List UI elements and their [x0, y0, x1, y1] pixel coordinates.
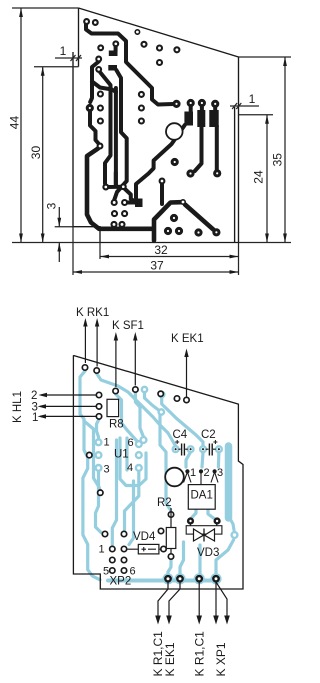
resistor R2 — [170, 508, 172, 554]
svg-text:2: 2 — [204, 467, 210, 479]
wire blue DA1 to VD3 pad2 — [208, 510, 216, 520]
wire dim 24 line — [266, 115, 268, 243]
wire trace pad l to pad n — [185, 205, 214, 230]
wire blue branch to iso pad — [84, 421, 100, 491]
svg-text:K HL1: K HL1 — [12, 391, 24, 423]
wire stub pad Z — [160, 184, 164, 204]
wire foil boundary right — [234, 107, 236, 243]
svg-text:35: 35 — [271, 153, 285, 167]
svg-text:5: 5 — [103, 566, 109, 578]
svg-text:K XP1: K XP1 — [214, 642, 228, 676]
wire arrow HL1-3 — [40, 405, 96, 407]
pad C — [135, 30, 139, 34]
pad free1 — [158, 391, 163, 396]
pad i — [171, 215, 176, 220]
wire dim 30 line — [42, 67, 44, 243]
wire blue band to VD3 pad — [229, 516, 235, 530]
pad K EK1 — [184, 397, 189, 402]
pad R — [174, 101, 179, 106]
wire arrow bottom2 — [169, 582, 180, 618]
wire blue trace pad to via — [145, 393, 159, 411]
pad VD3 lead2 — [215, 519, 220, 524]
pad XP2-f — [121, 557, 126, 562]
pad f — [122, 211, 127, 216]
wire square2 — [108, 65, 117, 71]
wire arrow HL1-1 — [40, 415, 96, 417]
wire extension 24 — [239, 114, 273, 116]
wire trace from pad A to pad R — [86, 24, 173, 105]
pad C4 left — [173, 446, 179, 452]
wire arrow HL1-2 — [41, 394, 96, 396]
pad K SF1 b — [133, 387, 138, 392]
pad M — [98, 106, 103, 111]
svg-text:3: 3 — [104, 464, 110, 476]
svg-text:1: 1 — [104, 437, 110, 449]
pad R2 bottom — [168, 554, 173, 559]
wire dim 32 line — [100, 256, 239, 258]
svg-text:VD3: VD3 — [197, 547, 219, 559]
wire blue wide right — [225, 446, 233, 518]
pad h — [120, 222, 125, 227]
pad C2 left — [200, 446, 206, 452]
resistor R8 — [107, 399, 119, 416]
pad m — [196, 230, 201, 235]
wire stub pad U — [213, 107, 217, 111]
svg-text:37: 37 — [150, 259, 164, 273]
wire trace bar3 to pad Y — [215, 126, 219, 170]
pad XP2-d — [121, 546, 126, 551]
pad HL1-1 — [96, 414, 101, 419]
diode VD3 — [190, 524, 216, 526]
wire rect2 junction — [135, 199, 143, 208]
svg-text:XP2: XP2 — [110, 576, 132, 588]
pad HL1-3 — [96, 404, 101, 409]
pad U1 pin5 — [136, 452, 142, 458]
wire arrow K SF1 a — [115, 336, 117, 387]
wire trace circle skirt to rect2 — [136, 125, 185, 198]
wire blue trace R8 right to U1 pin6 — [116, 394, 139, 443]
pad XP2-b — [121, 531, 126, 536]
pad bottom halo2 — [176, 574, 185, 583]
pad N — [98, 119, 103, 124]
pad C4 right — [188, 446, 194, 452]
pad P — [139, 106, 144, 111]
pad XP2-g — [110, 568, 115, 573]
pad T — [199, 100, 204, 105]
wire blue bottom band — [108, 579, 216, 583]
wire blue U1 pin4 to XP2 row1 — [125, 471, 139, 530]
pad K RK1 a — [82, 365, 87, 370]
pad XP2-a — [102, 531, 107, 536]
wire blue trace pad1 left main — [80, 371, 100, 580]
svg-text:K EK1: K EK1 — [171, 333, 204, 345]
pad U — [213, 101, 218, 106]
svg-text:R8: R8 — [109, 419, 124, 431]
pad A — [84, 19, 89, 24]
wire blue trace to C2 — [162, 398, 203, 447]
pad F — [174, 47, 179, 52]
pad Y — [215, 171, 220, 176]
wire dim 35 line — [284, 57, 286, 243]
board outline component side — [73, 356, 243, 589]
wire arrow bottom4 — [215, 582, 217, 618]
svg-text:3: 3 — [217, 467, 223, 479]
pad D — [142, 42, 147, 47]
pad b — [121, 184, 126, 189]
svg-text:1: 1 — [60, 44, 67, 58]
wire DA1 pin leads — [184, 472, 219, 485]
wire arrow bottom1 — [158, 582, 168, 618]
wire trace K to V — [90, 111, 99, 144]
pad p — [96, 57, 101, 62]
wire extension 30 — [34, 66, 79, 68]
pad j — [165, 228, 170, 233]
wire pentagon around pads i j k — [154, 202, 181, 240]
svg-text:4: 4 — [127, 462, 133, 474]
wire blue inner vertical 2 — [129, 481, 134, 545]
pad B — [93, 20, 98, 25]
pad n — [214, 230, 219, 235]
wire extension bottom — [12, 242, 291, 244]
wire blue C2 right to pin3 — [217, 452, 221, 467]
wire trace V2 tee — [114, 88, 118, 187]
svg-text:K RK1: K RK1 — [76, 307, 109, 319]
svg-text:30: 30 — [29, 146, 43, 160]
pad U1 pin3 — [96, 465, 102, 471]
wire bar2 under T — [197, 110, 205, 127]
pad via2 — [159, 392, 164, 397]
wire blue U1 inner vertical — [125, 438, 128, 470]
pad bottom1 — [165, 576, 170, 581]
wire blue U1 pin3 to XP2 row1 — [96, 471, 102, 533]
pad Z — [160, 179, 165, 184]
svg-text:K SF1: K SF1 — [112, 320, 144, 332]
pad bottom halo4 — [212, 574, 221, 583]
pad XP2-e — [110, 557, 115, 562]
wire dim 3 line — [58, 207, 60, 262]
svg-text:32: 32 — [154, 243, 168, 257]
pad S — [188, 100, 193, 105]
wire blue HL1-1 to U1 pin1 — [97, 419, 100, 440]
pad VD3 lead1 — [188, 519, 193, 524]
board outline — [73, 8, 239, 243]
op-amp DA1 box — [188, 485, 215, 510]
pad g — [112, 222, 117, 227]
pad bottom2 — [177, 576, 182, 581]
pad R2 top — [168, 512, 173, 517]
wire dim 44 line — [20, 8, 22, 243]
pad bottom halo1 — [164, 574, 173, 583]
node C2 hole1 — [202, 448, 204, 450]
pad k — [176, 228, 181, 233]
pad U1 pin6 — [136, 441, 142, 447]
svg-text:2: 2 — [31, 390, 37, 402]
wire trace V to bottom band — [87, 149, 153, 229]
pad U1 pin4 — [136, 465, 142, 471]
wire branch to V2 — [92, 82, 116, 93]
wire bar1 under S — [184, 112, 193, 126]
node C4 hole1 — [175, 448, 177, 450]
pad U1 pin2 — [96, 452, 102, 458]
capacitor C4 — [178, 448, 187, 450]
wire trace V3 to pad c — [114, 70, 126, 200]
pad XP2-h — [121, 568, 126, 573]
pad K SF1 a — [113, 388, 118, 393]
wire blue below VD3 to bottom pad3 — [198, 545, 201, 574]
svg-text:VD4: VD4 — [133, 531, 156, 543]
diode VD4 — [128, 548, 162, 550]
pad VD3 right — [232, 532, 238, 538]
svg-text:6: 6 — [128, 437, 134, 449]
pad H — [98, 45, 103, 50]
pad I — [113, 41, 118, 46]
wire extension 37 left — [72, 227, 74, 275]
wire extension 3 — [55, 226, 73, 228]
svg-text:K R1,C1: K R1,C1 — [193, 631, 207, 677]
wire extension right low — [238, 243, 240, 276]
wire trace pad d to rect2 — [128, 201, 137, 205]
pad free2 — [174, 396, 179, 401]
svg-text:24: 24 — [252, 170, 266, 184]
wire stub pad S — [189, 106, 193, 111]
wire blue right band to VD3 — [216, 540, 234, 577]
wire trace p down to K — [90, 62, 99, 103]
pad XP2-c — [110, 546, 115, 551]
pad left U1 — [87, 452, 92, 457]
svg-text:3: 3 — [45, 202, 59, 209]
pad O — [139, 92, 144, 97]
pad V — [98, 144, 103, 149]
wire blue below VD3 to bottom pad2 — [180, 542, 184, 574]
svg-text:C4: C4 — [173, 429, 188, 441]
svg-text:1: 1 — [190, 467, 196, 479]
wire extension top — [12, 7, 79, 9]
pad K RK1 b — [94, 368, 99, 373]
wire arrow bottom3 — [198, 582, 200, 618]
pad c — [112, 200, 117, 205]
pad bottom3 — [197, 576, 202, 581]
wire extension 35 — [239, 56, 291, 58]
wire trace pads a-b link — [106, 173, 124, 188]
wire square1 — [109, 51, 118, 57]
wire stub pad T — [200, 106, 204, 110]
pad W — [172, 159, 177, 164]
pad L — [98, 92, 103, 97]
wire blue R2 bottom to pad1 — [168, 559, 171, 576]
pad U1 pin1 — [96, 439, 102, 445]
wire blue trace mid vertical to R2 — [160, 413, 171, 511]
pad via R2 — [158, 528, 163, 533]
wire blue C2 left to pin2 — [202, 452, 203, 467]
wire dim 1 top-left — [55, 57, 82, 59]
wire blue inner vertical to XP2 row2 — [112, 440, 116, 545]
mounting hole big circle — [166, 123, 183, 140]
pad C2 right — [216, 446, 222, 452]
wire blue U1 inner loop — [120, 438, 146, 486]
wire trace pad b to rect2 — [125, 189, 135, 202]
svg-text:1: 1 — [32, 412, 38, 424]
wire trace bar2 to pad X — [195, 126, 202, 171]
wire blue C4 right to pin1 — [186, 452, 191, 467]
pad via3 — [159, 409, 164, 414]
svg-text:44: 44 — [8, 116, 22, 130]
pad bottom4 — [213, 576, 218, 581]
svg-text:1: 1 — [249, 92, 256, 106]
node DA1 pin1 — [185, 469, 189, 473]
mounting hole bottom — [165, 468, 184, 487]
pad a — [103, 185, 108, 190]
svg-text:C2: C2 — [201, 429, 216, 441]
node DA1 pin2 — [199, 469, 203, 473]
wire stub pad I to square1 — [114, 46, 118, 51]
pad l — [181, 200, 185, 204]
pad X — [188, 171, 193, 176]
node C4 hole2 — [190, 448, 192, 450]
pad J — [96, 67, 101, 72]
pad HL1-2 — [96, 392, 101, 397]
wire arrow K RK1 a — [84, 322, 86, 363]
pad bottom halo3 — [195, 574, 204, 583]
pad e — [112, 211, 117, 216]
wire blue trace from SF1 pad2 — [135, 392, 143, 437]
wire blue DA1 to VD3 pad1 — [191, 510, 196, 519]
svg-text:1: 1 — [99, 544, 105, 556]
pad VD4 right — [161, 546, 166, 551]
wire extension 32 left — [99, 243, 101, 260]
pad d — [122, 200, 127, 205]
wire arrow bottom5 — [216, 582, 227, 618]
pad via4 — [141, 437, 147, 443]
wire dim 37 line — [73, 271, 239, 273]
node DA1 pin3 — [213, 469, 217, 473]
pad G — [157, 60, 162, 65]
capacitor C2 — [206, 448, 216, 450]
svg-text:K EK1: K EK1 — [163, 642, 177, 676]
wire dim 1 top-right — [230, 105, 259, 107]
svg-text:DA1: DA1 — [191, 490, 213, 502]
wire bar3 under U — [209, 110, 218, 127]
pad Q — [139, 119, 144, 124]
node C2 hole2 — [218, 448, 220, 450]
pad E — [157, 46, 162, 51]
pad via1 — [142, 387, 147, 392]
pad K — [87, 105, 92, 110]
svg-text:R2: R2 — [157, 497, 172, 509]
wire arrow K EK1 — [186, 353, 188, 397]
wire trace J down right V1 to pad a — [100, 73, 110, 184]
pad iso — [98, 490, 103, 495]
wire arrow K RK1 b — [96, 322, 98, 367]
wire arrow K SF1 b — [134, 336, 136, 386]
wire blue trace pad2 long diagonal to C4 — [97, 374, 176, 447]
svg-text:U1: U1 — [114, 449, 129, 461]
